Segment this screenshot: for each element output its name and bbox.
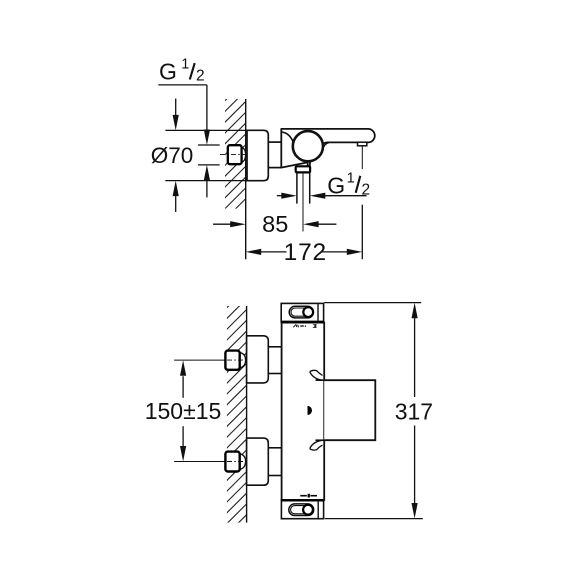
svg-text:317: 317	[395, 399, 433, 425]
svg-text:G: G	[159, 59, 177, 85]
svg-text:1: 1	[347, 171, 355, 187]
svg-text:85: 85	[262, 211, 288, 237]
svg-text:G: G	[327, 173, 345, 199]
svg-text:2: 2	[196, 68, 205, 85]
svg-text:Ø70: Ø70	[151, 143, 194, 168]
svg-text:1: 1	[181, 56, 189, 72]
svg-text:150±15: 150±15	[145, 398, 222, 424]
svg-text:172: 172	[284, 239, 327, 266]
svg-text:2: 2	[362, 182, 371, 199]
